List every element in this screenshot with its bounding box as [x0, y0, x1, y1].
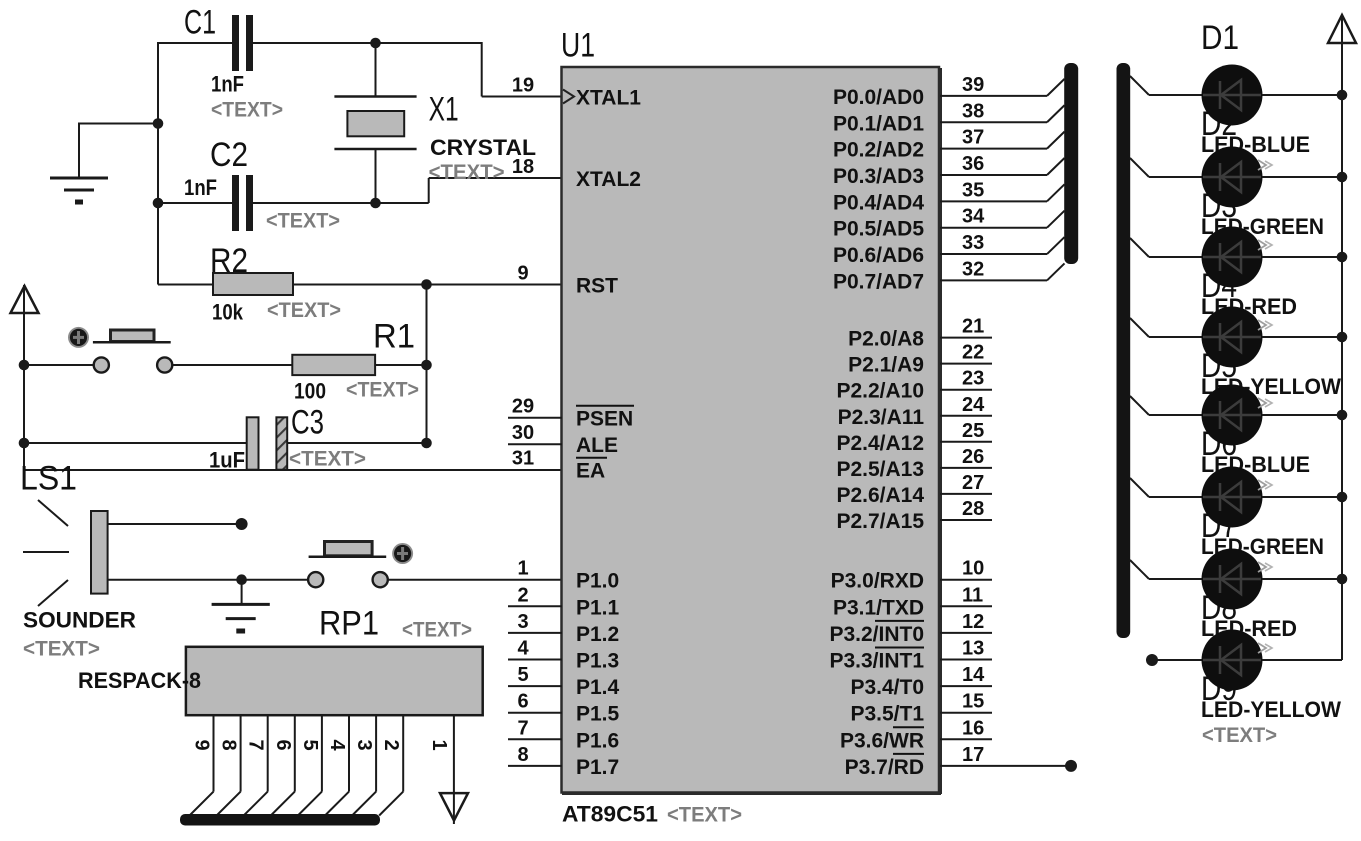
svg-text:P1.4: P1.4: [576, 676, 620, 699]
capacitor C3: [247, 417, 287, 469]
text placeholder R1: [346, 379, 419, 402]
wire left vertical (C1-C2-R2): [157, 42, 159, 285]
wire sounder top pin: [108, 523, 242, 525]
svg-text:P1.5: P1.5: [576, 703, 620, 726]
label U1: [561, 27, 595, 65]
svg-text:C2: C2: [210, 136, 248, 174]
svg-text:19: 19: [512, 75, 534, 97]
svg-text:P1.6: P1.6: [576, 729, 619, 752]
sounder LS1 body: [23, 500, 108, 606]
svg-text:P1.1: P1.1: [576, 596, 620, 619]
node junction C2 left: [153, 198, 164, 209]
U1 pin 3 P1.2: [508, 611, 619, 646]
text placeholder X1: [429, 161, 505, 184]
ground GND1: [50, 123, 158, 203]
svg-text:27: 27: [962, 472, 984, 494]
svg-text:P0.7/AD7: P0.7/AD7: [833, 270, 924, 293]
U1 pin 18 XTAL2: [512, 156, 641, 191]
LED D6 LED-BLUE: [1149, 385, 1342, 478]
svg-text:33: 33: [962, 232, 984, 254]
svg-text:P3.7/RD: P3.7/RD: [845, 756, 924, 779]
svg-text:<TEXT>: <TEXT>: [266, 210, 340, 233]
LED D4 LED-RED: [1149, 227, 1342, 320]
svg-text:P0.5/AD5: P0.5/AD5: [833, 218, 924, 241]
value 100: [294, 379, 326, 404]
svg-text:P2.1/A9: P2.1/A9: [848, 354, 924, 377]
svg-text:8: 8: [218, 740, 240, 751]
capacitor C1 plates: [232, 15, 253, 71]
svg-text:P0.6/AD6: P0.6/AD6: [833, 244, 924, 267]
label D1: [1201, 19, 1239, 57]
text placeholder U1: [667, 804, 742, 827]
LED D9 LED-YELLOW: [1152, 630, 1342, 723]
svg-text:<TEXT>: <TEXT>: [289, 448, 366, 471]
svg-text:3: 3: [517, 611, 528, 633]
svg-text:38: 38: [962, 100, 984, 122]
U1 pin 36 P0.3/AD3: [833, 153, 1047, 188]
svg-text:C3: C3: [291, 404, 324, 442]
node sounder top end: [236, 518, 248, 530]
LED D3 LED-GREEN: [1149, 147, 1342, 240]
LED D7 LED-GREEN: [1149, 467, 1342, 560]
svg-text:39: 39: [962, 74, 984, 96]
RP1 pins 9-2 with diagonals: [190, 715, 404, 815]
svg-text:<TEXT>: <TEXT>: [667, 804, 742, 827]
U1 pin 22 P2.1/A9: [848, 342, 992, 377]
svg-text:<TEXT>: <TEXT>: [23, 638, 100, 661]
U1 pin 24 P2.3/A11: [838, 394, 992, 429]
svg-text:12: 12: [962, 611, 984, 633]
value CRYSTAL: [430, 135, 536, 160]
svg-text:RP1: RP1: [319, 605, 379, 643]
text placeholder LS1: [23, 638, 100, 661]
node junction C3 right row: [421, 438, 432, 449]
text placeholder R2: [267, 299, 341, 322]
value RESPACK-8: [78, 668, 201, 693]
wire left power vertical: [23, 285, 25, 470]
svg-text:15: 15: [962, 691, 984, 713]
svg-text:P2.7/A15: P2.7/A15: [836, 510, 924, 533]
svg-text:U1: U1: [561, 27, 595, 65]
push button S1: [68, 327, 172, 373]
svg-text:P2.2/A10: P2.2/A10: [836, 380, 924, 403]
label LS1: [20, 460, 77, 498]
push button S2: [308, 542, 413, 588]
svg-text:7: 7: [245, 740, 267, 751]
node junction C1/X1 top: [370, 38, 381, 49]
svg-text:30: 30: [512, 422, 534, 444]
capacitor C2 plates: [232, 175, 253, 231]
svg-text:P3.4/T0: P3.4/T0: [850, 676, 924, 699]
U1 pin 23 P2.2/A10: [836, 368, 992, 403]
node junction sounder/gnd: [236, 574, 247, 585]
svg-text:P2.6/A14: P2.6/A14: [836, 484, 924, 507]
svg-text:23: 23: [962, 368, 984, 390]
svg-text:35: 35: [962, 179, 984, 201]
svg-text:24: 24: [962, 394, 985, 416]
svg-text:D1: D1: [1201, 19, 1239, 57]
U1 pin 34 P0.5/AD5: [833, 206, 1047, 241]
wire R2 left: [158, 284, 213, 286]
U1 clock marker XTAL1: [563, 90, 574, 104]
node junction R1 right: [421, 360, 432, 371]
U1 pin 16 P3.6/WR: [840, 717, 992, 752]
U1 pin 39 P0.0/AD0: [833, 74, 1047, 109]
svg-text:6: 6: [272, 740, 294, 751]
svg-text:9: 9: [517, 263, 528, 285]
svg-text:P0.0/AD0: P0.0/AD0: [833, 86, 924, 109]
svg-text:1uF: 1uF: [209, 448, 245, 473]
svg-text:LED-YELLOW: LED-YELLOW: [1201, 697, 1341, 722]
label X1: [429, 91, 459, 129]
node junction RST: [421, 279, 432, 290]
svg-text:RESPACK-8: RESPACK-8: [78, 668, 201, 693]
label C1: [184, 4, 216, 42]
svg-text:RST: RST: [576, 275, 618, 298]
svg-text:34: 34: [962, 206, 985, 228]
U1 pin 5 P1.4: [508, 664, 620, 699]
svg-text:1nF: 1nF: [211, 72, 244, 97]
U1 pin 7 P1.6: [508, 717, 619, 752]
svg-text:28: 28: [962, 498, 984, 520]
wire RST vertical: [426, 285, 428, 444]
label R1: [373, 318, 415, 356]
wire LED power rail: [1341, 14, 1343, 660]
svg-text:P3.2/INT0: P3.2/INT0: [829, 623, 924, 646]
text placeholder D1 column: [1202, 724, 1277, 747]
text placeholder C2: [266, 210, 340, 233]
U1 pin 13 P3.3/INT1: [829, 638, 992, 673]
svg-text:<TEXT>: <TEXT>: [1202, 724, 1277, 747]
power terminal left: [11, 286, 39, 313]
svg-text:P0.3/AD3: P0.3/AD3: [833, 165, 924, 188]
svg-text:16: 16: [962, 717, 984, 739]
svg-text:P1.0: P1.0: [576, 570, 619, 593]
svg-text:P3.1/TXD: P3.1/TXD: [833, 596, 924, 619]
svg-text:21: 21: [962, 316, 984, 338]
svg-text:X1: X1: [429, 91, 459, 129]
U1 pin 1 P1.0: [517, 558, 619, 593]
RP1 pin labels 9-2: [191, 740, 403, 752]
svg-text:<TEXT>: <TEXT>: [429, 161, 505, 184]
svg-text:36: 36: [962, 153, 984, 175]
wire button to R1: [172, 364, 292, 366]
svg-text:<TEXT>: <TEXT>: [211, 99, 283, 122]
svg-text:P3.0/RXD: P3.0/RXD: [831, 570, 924, 593]
U1 pin 27 P2.6/A14: [836, 472, 992, 507]
bus P0 (vertical bar): [1064, 63, 1078, 264]
RP1 pin1 terminal: [440, 793, 468, 820]
node junction button row: [19, 360, 30, 371]
svg-text:R1: R1: [373, 318, 415, 356]
U1 pin 21 P2.0/A8: [848, 316, 992, 351]
U1 pin 25 P2.4/A12: [836, 420, 992, 455]
wire C2 left: [158, 202, 233, 204]
svg-text:8: 8: [517, 744, 528, 766]
svg-text:10k: 10k: [212, 300, 244, 325]
wire C3 left: [24, 442, 247, 444]
U1 pin 33 P0.6/AD6: [833, 232, 1047, 267]
label R2: [210, 242, 248, 280]
svg-text:PSEN: PSEN: [576, 408, 633, 431]
svg-text:29: 29: [512, 396, 534, 418]
svg-text:P1.7: P1.7: [576, 756, 619, 779]
U1 pin 8 P1.7: [508, 744, 619, 779]
U1 pin 6 P1.5: [508, 691, 620, 726]
svg-text:<TEXT>: <TEXT>: [267, 299, 341, 322]
svg-text:P3.3/INT1: P3.3/INT1: [829, 650, 924, 673]
svg-text:P0.2/AD2: P0.2/AD2: [833, 139, 924, 162]
svg-text:4: 4: [326, 740, 348, 752]
svg-text:P0.4/AD4: P0.4/AD4: [833, 191, 924, 214]
U1 pin 28 P2.7/A15: [836, 498, 992, 533]
svg-text:<TEXT>: <TEXT>: [346, 379, 419, 402]
svg-text:6: 6: [517, 691, 528, 713]
wire C3 right: [287, 442, 426, 444]
svg-text:C1: C1: [184, 4, 216, 42]
value 1nF (C1): [211, 72, 244, 97]
text placeholder C3: [289, 448, 366, 471]
label RP1: [319, 605, 379, 643]
LED D2 LED-BLUE: [1149, 65, 1342, 158]
wire EA net (pin31): [23, 469, 562, 471]
U1 pin 19 XTAL1: [512, 75, 641, 110]
wire button2 to P1.0: [388, 579, 562, 581]
svg-text:P2.3/A11: P2.3/A11: [838, 406, 925, 429]
svg-text:P3.5/T1: P3.5/T1: [850, 703, 924, 726]
text placeholder RP1: [402, 619, 472, 642]
svg-text:P2.5/A13: P2.5/A13: [836, 458, 924, 481]
svg-text:9: 9: [191, 740, 213, 751]
resistor pack RP1 body: [186, 647, 483, 715]
svg-text:2: 2: [380, 740, 402, 751]
svg-text:XTAL1: XTAL1: [576, 87, 641, 110]
svg-text:11: 11: [962, 584, 983, 606]
op-amp U1 body (AT89C51 chip): [562, 67, 942, 794]
svg-text:P1.3: P1.3: [576, 650, 619, 673]
value 10k: [212, 300, 244, 325]
wire C2 right to X1: [249, 202, 376, 204]
LED D8 LED-RED: [1149, 549, 1342, 642]
svg-text:AT89C51: AT89C51: [562, 802, 658, 827]
wire X1 to pin18: [376, 178, 563, 203]
U1 pin 30 ALE: [508, 422, 618, 457]
svg-text:1: 1: [517, 558, 528, 580]
svg-text:P1.2: P1.2: [576, 623, 619, 646]
svg-text:100: 100: [294, 379, 326, 404]
U1 pin 12 P3.2/INT0: [829, 611, 992, 646]
wire sounder bottom pin: [108, 579, 309, 581]
svg-text:32: 32: [962, 258, 984, 280]
value SOUNDER: [23, 608, 136, 633]
svg-text:25: 25: [962, 420, 984, 442]
U1 pin 11 P3.1/TXD: [833, 584, 992, 619]
wire R1 to vertical: [375, 364, 426, 366]
U1 pin 10 P3.0/RXD: [831, 558, 992, 593]
U1 pin 38 P0.1/AD1: [833, 100, 1047, 135]
svg-text:3: 3: [353, 740, 375, 751]
wire C1 top net: [157, 42, 233, 44]
U1 pin 26 P2.5/A13: [836, 446, 992, 481]
label C2: [210, 136, 248, 174]
node junction gnd/left rail: [153, 118, 164, 129]
U1 pin 9 RST: [517, 263, 618, 298]
value 1nF (C2): [184, 175, 217, 200]
node junctions LED rail: [1337, 90, 1348, 585]
svg-text:LS1: LS1: [20, 460, 77, 498]
RP1 bus bar: [180, 814, 380, 826]
svg-text:SOUNDER: SOUNDER: [23, 608, 136, 633]
svg-text:2: 2: [517, 584, 528, 606]
svg-text:<TEXT>: <TEXT>: [402, 619, 472, 642]
bus entries LED rows: [1130, 76, 1149, 579]
svg-text:4: 4: [517, 638, 529, 660]
svg-text:P0.1/AD1: P0.1/AD1: [833, 112, 924, 135]
U1 pin 32 P0.7/AD7: [833, 258, 1047, 293]
power terminal right: [1328, 15, 1356, 43]
node LED8 wire end: [1146, 654, 1158, 666]
svg-text:P2.0/A8: P2.0/A8: [848, 328, 924, 351]
bus entries P0: [1047, 79, 1065, 281]
svg-text:31: 31: [512, 448, 534, 470]
node junction C3 row: [19, 438, 30, 449]
wire to pin19 corner: [376, 42, 563, 97]
bus LED (vertical bar): [1117, 63, 1131, 638]
svg-text:18: 18: [512, 156, 534, 178]
U1 pin 29 PSEN: [508, 396, 634, 431]
U1 pin 15 P3.5/T1: [850, 691, 992, 726]
wire R2 to RST pin9: [293, 284, 562, 286]
svg-text:R2: R2: [210, 242, 248, 280]
svg-text:37: 37: [962, 127, 984, 149]
svg-text:XTAL2: XTAL2: [576, 168, 641, 191]
svg-text:17: 17: [962, 744, 984, 766]
U1 pin 37 P0.2/AD2: [833, 127, 1047, 162]
wire C1 right to junction: [249, 42, 376, 44]
U1 pin 35 P0.4/AD4: [833, 179, 1047, 214]
svg-text:13: 13: [962, 638, 984, 660]
U1 pin 17 P3.7/RD: [845, 744, 1077, 779]
svg-text:22: 22: [962, 342, 984, 364]
svg-text:P2.4/A12: P2.4/A12: [836, 432, 924, 455]
label C3: [291, 404, 324, 442]
U1 pin 14 P3.4/T0: [850, 664, 992, 699]
U1 pin 31 EA: [512, 448, 607, 483]
svg-text:1: 1: [428, 740, 450, 751]
RP1 pin 1: [428, 715, 454, 824]
U1 pin 2 P1.1: [508, 584, 620, 619]
wire power to button: [24, 364, 93, 366]
LED D5 LED-YELLOW: [1149, 307, 1342, 400]
value AT89C51: [562, 802, 658, 827]
svg-text:5: 5: [299, 740, 321, 751]
node junction X1 bottom: [370, 198, 381, 209]
svg-text:EA: EA: [576, 460, 605, 483]
svg-text:1nF: 1nF: [184, 175, 217, 200]
text placeholder C1: [211, 99, 283, 122]
ground GND2: [212, 580, 270, 631]
crystal X1: [334, 43, 416, 203]
svg-text:7: 7: [517, 717, 528, 739]
svg-text:ALE: ALE: [576, 434, 618, 457]
svg-text:14: 14: [962, 664, 985, 686]
svg-text:P3.6/WR: P3.6/WR: [840, 729, 924, 752]
svg-text:26: 26: [962, 446, 984, 468]
value 1uF: [209, 448, 245, 473]
svg-text:10: 10: [962, 558, 984, 580]
resistor R1: [292, 355, 375, 375]
resistor R2: [213, 273, 293, 295]
U1 pin 4 P1.3: [508, 638, 619, 673]
svg-text:5: 5: [517, 664, 528, 686]
